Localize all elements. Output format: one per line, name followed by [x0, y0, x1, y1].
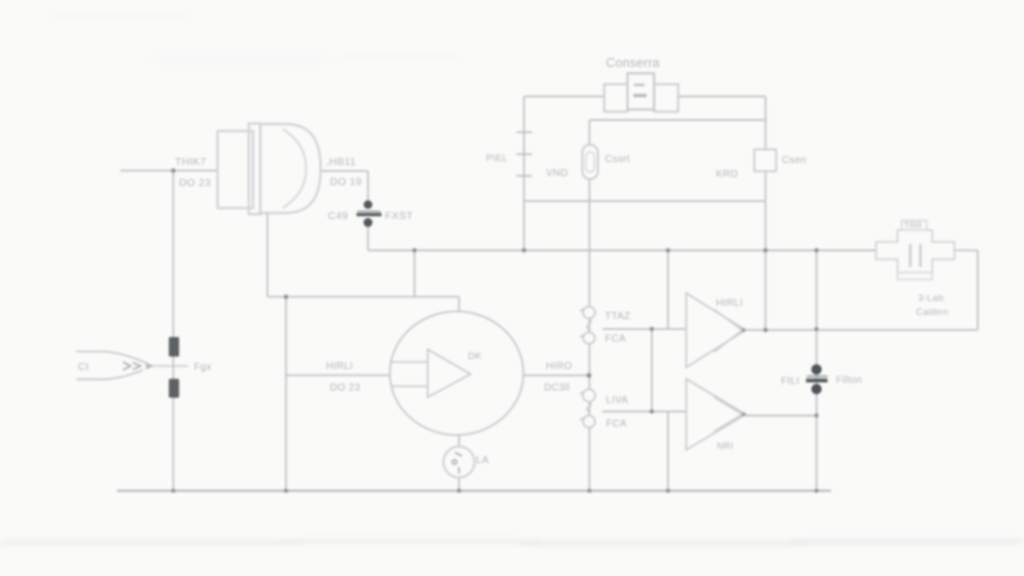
- wire vertical x651 between buffer inputs: [651, 329, 653, 412]
- svg-text:FXST: FXST: [385, 210, 413, 222]
- wire vertical x414: [414, 250, 416, 296]
- svg-text:FILI: FILI: [781, 376, 799, 387]
- wire TRR right lead: [954, 249, 977, 251]
- svg-text:VND: VND: [546, 168, 568, 179]
- wire loop bottom y201: [524, 200, 766, 202]
- wire op-amp U1 input: [286, 374, 390, 376]
- svg-text:Csen: Csen: [782, 155, 807, 166]
- component Cssrt: [582, 145, 598, 179]
- svg-text:LIVA: LIVA: [606, 395, 628, 406]
- svg-text:Calibrn: Calibrn: [916, 307, 948, 318]
- wire vertical x589 long branch: [588, 120, 590, 491]
- svg-text:TTAZ: TTAZ: [605, 311, 630, 322]
- wire B buffer2 input: [603, 411, 687, 413]
- wire vertical x668 upper: [667, 250, 669, 329]
- svg-text:PIEL: PIEL: [486, 153, 508, 164]
- svg-text:HIRLI: HIRLI: [716, 298, 743, 309]
- svg-text:FCA: FCA: [605, 334, 626, 345]
- wire lamp to bus: [458, 478, 460, 491]
- svg-text:DC3ll: DC3ll: [544, 383, 570, 394]
- wire vertical x977 corner: [977, 250, 979, 330]
- wire buffer2 output: [746, 415, 817, 417]
- faint top-left smudges: [55, 14, 460, 61]
- wire y297 transformer to op-amp top: [267, 296, 459, 298]
- svg-text:THIK7: THIK7: [175, 156, 206, 168]
- wire op-amp U1 output: [523, 374, 589, 376]
- transformer T1 body: [218, 124, 321, 215]
- lamp LA: [444, 447, 475, 478]
- wire vertical x816 capacitor FILI branch: [816, 250, 818, 490]
- svg-text:Fgx: Fgx: [194, 362, 212, 373]
- wire inner top y120: [589, 119, 765, 121]
- op-amp U1 motor circle: [390, 311, 524, 435]
- wire left lead to transformer T1: [121, 170, 218, 172]
- indicator pair TTAZ: [580, 307, 595, 344]
- svg-text:,HB11: ,HB11: [326, 156, 356, 168]
- svg-text:CI: CI: [78, 361, 89, 373]
- battery ticks PIEL: [517, 132, 533, 176]
- svg-text:FCA: FCA: [606, 419, 627, 430]
- svg-text:HIRLI: HIRLI: [326, 361, 353, 372]
- wire A buffer1 input: [603, 328, 687, 330]
- fuse F1 dark elements: [169, 337, 179, 357]
- svg-text:Cssrt: Cssrt: [605, 154, 630, 165]
- wire vertical x524 battery branch: [523, 97, 525, 251]
- svg-text:DO 23: DO 23: [330, 383, 361, 394]
- wire buffer1 output: [746, 329, 978, 331]
- svg-text:C49: C49: [328, 210, 348, 222]
- wire op-amp top lead: [458, 297, 460, 312]
- wire vertical x765: [765, 97, 767, 331]
- capacitor FILI: [806, 364, 828, 394]
- wire switch dash: [152, 365, 188, 367]
- indicator pair LIVA: [580, 389, 595, 427]
- wire vertical x286 to bus: [285, 297, 287, 491]
- wire transformer T1 right lead: [321, 170, 368, 172]
- wire loop top y96: [524, 96, 766, 98]
- component Csen: [754, 149, 776, 171]
- svg-text:TRR: TRR: [904, 220, 922, 230]
- wire capacitor C49 top lead: [367, 171, 369, 201]
- svg-text:DO 23: DO 23: [179, 177, 211, 189]
- switch CI: [77, 352, 155, 380]
- buffer1 HIRLI triangle: [686, 293, 745, 367]
- svg-text:DO 19: DO 19: [330, 176, 362, 188]
- crystal TRR: [876, 220, 954, 279]
- svg-text:DK: DK: [468, 351, 482, 362]
- svg-text:NRI: NRI: [717, 441, 733, 451]
- svg-text:HIRO: HIRO: [546, 361, 572, 372]
- buffer2 NRI triangle: [686, 379, 745, 450]
- svg-text:Filton: Filton: [836, 375, 862, 386]
- connector Conserra: [604, 73, 678, 111]
- wire main horizontal rail y250: [368, 249, 876, 251]
- svg-text:KRD: KRD: [716, 169, 738, 180]
- wire vertical x668 lower: [667, 412, 669, 491]
- wire capacitor C49 bottom lead: [367, 226, 369, 250]
- svg-text:3-Lab: 3-Lab: [918, 293, 944, 304]
- svg-text:LA: LA: [476, 455, 489, 466]
- wire op-amp to lamp: [458, 435, 460, 447]
- capacitor C49: [357, 200, 382, 227]
- wire vertical x173 switch fuse branch: [172, 171, 174, 491]
- bus ground rail: [117, 490, 831, 492]
- wire transformer bottom lead: [266, 213, 268, 297]
- faint bottom smudge: [0, 540, 1024, 546]
- svg-text:Conserra: Conserra: [606, 56, 660, 70]
